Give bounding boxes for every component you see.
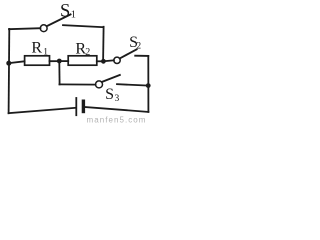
svg-text:manfen5.com: manfen5.com: [87, 115, 147, 124]
svg-text:1: 1: [71, 10, 76, 21]
label R1: [31, 40, 48, 58]
svg-text:1: 1: [43, 47, 48, 57]
label S2: [129, 34, 141, 52]
wire right vertical: [147, 56, 149, 112]
node junction D (S3 branch to right wire): [146, 83, 151, 88]
switch S1 contact circle: [40, 25, 47, 32]
wire battery to bottom-right corner: [85, 107, 148, 112]
switch S2 blade: [120, 49, 137, 58]
node junction A (top-right branch to R2/S2): [101, 59, 106, 64]
wire node C to R2: [59, 60, 68, 62]
svg-text:R: R: [31, 40, 42, 57]
wire right upper vertical: [102, 27, 105, 61]
wire S3 branch horizontal: [59, 83, 95, 85]
label S3: [105, 86, 119, 104]
resistor R1: [25, 56, 50, 65]
wire S3 fixed contact to node D: [117, 84, 148, 85]
wire R1 to node C: [50, 60, 60, 62]
wire S1 fixed contact to top-right corner: [63, 25, 104, 27]
wire top-left to S1: [9, 28, 40, 29]
battery long plate (positive): [75, 98, 77, 115]
resistor R2: [68, 56, 97, 65]
svg-text:S: S: [60, 2, 70, 22]
wire node B to R1: [9, 61, 25, 63]
wire left vertical: [8, 29, 11, 113]
wire S3 branch vertical from node C: [58, 61, 60, 84]
label S1: [60, 2, 76, 22]
wire S2 fixed contact: [135, 55, 148, 57]
svg-text:2: 2: [85, 47, 90, 58]
node junction B (left wire to R1): [6, 61, 11, 66]
node junction C (between R1 and R2): [57, 59, 62, 64]
battery short plate (negative): [82, 101, 85, 111]
switch S3 contact circle: [96, 81, 103, 88]
switch S2 contact circle: [114, 57, 120, 63]
wire bottom-left to battery: [9, 108, 76, 113]
wire node A to S2: [103, 60, 114, 61]
switch S3 blade: [102, 75, 120, 82]
svg-text:S: S: [105, 86, 114, 103]
svg-text:3: 3: [115, 94, 120, 104]
label R2: [75, 41, 90, 59]
svg-text:2: 2: [136, 42, 141, 52]
switch S1 blade: [47, 14, 71, 26]
wire R2 to node A: [97, 60, 104, 62]
